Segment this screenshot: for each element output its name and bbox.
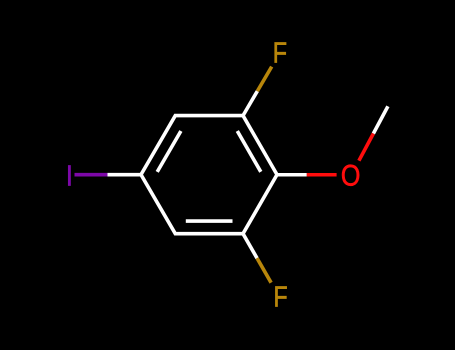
svg-text:O: O [341,159,360,192]
benzene ring outer bonds [141,116,277,234]
svg-text:I: I [66,159,73,191]
bond C1-F(bottom) goldenrod half [257,258,271,283]
double bond inner line (top-right edge) [237,131,260,172]
double bond inner line (left-top edge) [157,131,181,172]
svg-text:F: F [274,282,288,313]
svg-text:F: F [273,36,287,69]
bond C1-F(bottom) white half [243,234,257,259]
bond C5-I white half [108,173,142,177]
bond C2-O white half [277,173,307,177]
double bond inner line (bottom edge) [186,219,233,223]
bond C2-O red half [307,173,337,177]
bond O-CH3 white half [373,106,388,133]
bond C3-F(top) goldenrod half [257,67,271,92]
bond C5-I purple half [75,173,108,177]
bond O-CH3 red half [359,134,374,161]
bond C3-F(top) white half [243,91,257,116]
